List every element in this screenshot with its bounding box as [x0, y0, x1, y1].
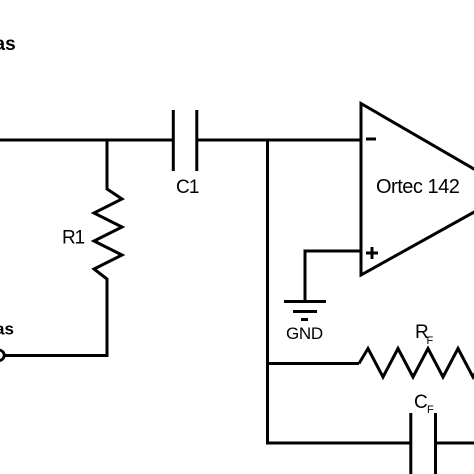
svg-text:GND: GND: [286, 324, 323, 343]
label: op-amp inverting input (-): [366, 138, 376, 141]
wire: bias terminal to R1 bottom: [4, 354, 109, 357]
svg-text:R1: R1: [62, 228, 85, 249]
wire: CF right plate to edge: [437, 442, 474, 445]
wire: feedback vertical from inverting input node: [266, 139, 269, 445]
svg-text:F: F: [427, 335, 434, 347]
wire: feedback bottom to CF left plate: [266, 442, 410, 445]
svg-text:C: C: [414, 392, 428, 413]
svg-text:as: as: [0, 320, 14, 339]
svg-text:C1: C1: [176, 177, 199, 198]
wire: input to C1 left plate: [0, 139, 172, 142]
wire: non-inverting input to ground: [305, 251, 360, 302]
capacitor CF (clipped at bottom edge): [411, 413, 436, 474]
label RF: [415, 322, 434, 347]
resistor R1 (with leads): [94, 139, 122, 358]
svg-text:Ortec 142: Ortec 142: [376, 176, 460, 198]
ground: [284, 302, 326, 320]
wire: feedback node to RF: [266, 362, 359, 365]
resistor RF (clipped at right edge): [359, 349, 474, 378]
label: op-amp non-inverting input (+): [366, 247, 378, 259]
op-amp U1 Ortec 142: [361, 104, 474, 276]
svg-text:F: F: [427, 404, 434, 416]
wire: C1 right plate to op-amp inverting input: [198, 139, 360, 142]
capacitor C1: [173, 110, 197, 171]
svg-text:as: as: [0, 34, 16, 55]
terminal: bias input circle: [0, 350, 4, 360]
label CF: [414, 392, 434, 416]
